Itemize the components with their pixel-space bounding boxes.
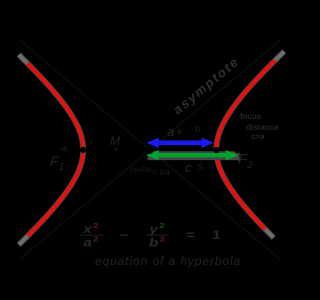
blue arrow a: center to right vertex: [146, 138, 214, 148]
hyperbola left branch (red): [27, 63, 83, 237]
asymptote stub LL: [19, 236, 28, 245]
small mark above right vertex: [195, 125, 200, 134]
label F1: [50, 154, 64, 173]
center point M: [146, 146, 154, 154]
label M (center): [110, 135, 120, 147]
x-axis: [20, 149, 285, 151]
asymptote stub UR: [275, 52, 284, 61]
asymptote stub UL: [19, 55, 27, 63]
focus F1: [58, 147, 64, 153]
equation x^2/a^2 - y^2/b^2 = 1: [80, 222, 233, 248]
small mark right of a: [177, 127, 182, 136]
label c (below green arrow): [185, 161, 192, 174]
label F2: [238, 152, 253, 171]
hyperbola right branch (red): [216, 60, 275, 234]
label a (above blue arrow): [167, 125, 174, 138]
small mark right of M: [114, 146, 119, 154]
right annotation line 3: [251, 133, 265, 141]
hyperbola left branch (black curve halo): [19, 55, 84, 245]
asymptote y=(b/a)x: [20, 41, 280, 260]
asymptote label (rotated): [171, 54, 242, 116]
label near left vertex: [59, 144, 67, 153]
asymptote y=-(b/a)x: [20, 40, 280, 259]
green arrow c: center to right focus: [146, 150, 238, 160]
asymptote stub LR: [265, 229, 273, 238]
note under green arrow: [152, 168, 170, 177]
focus F2: [234, 147, 240, 153]
vertex S1: [80, 147, 86, 153]
vertex S2: [213, 147, 219, 153]
focus F2 tick halo: [238, 152, 240, 161]
caption: [95, 255, 241, 267]
right annotation line 1: [240, 113, 261, 121]
label under center: [130, 166, 152, 174]
right annotation line 2: [246, 124, 278, 132]
hyperbola right branch (black curve halo): [216, 51, 284, 238]
x-axis (black overlay over curves): [20, 149, 285, 151]
small mark below right vertex: [197, 163, 203, 172]
